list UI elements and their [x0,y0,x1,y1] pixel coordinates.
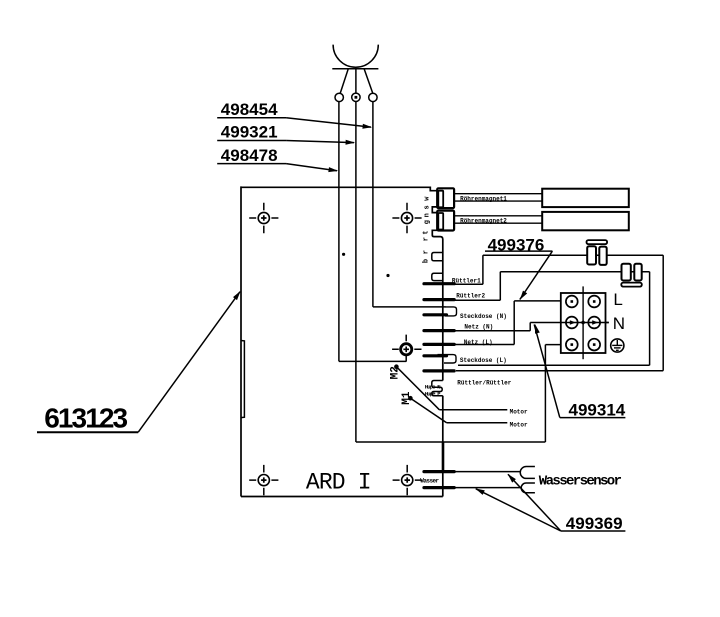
svg-text:M2: M2 [390,366,402,379]
svg-text:498478: 498478 [221,146,278,165]
svg-text:ARD I: ARD I [306,469,371,495]
svg-text:n: n [424,213,432,217]
svg-text:Rüttler1: Rüttler1 [452,277,481,284]
svg-text:499376: 499376 [488,236,545,255]
svg-text:Motor: Motor [510,408,528,415]
svg-text:Hupe N: Hupe N [425,383,441,390]
svg-text:t: t [423,230,431,234]
svg-text:Röhrenmagnet1: Röhrenmagnet1 [460,195,507,202]
svg-text:Wasser: Wasser [420,478,439,485]
svg-text:499369: 499369 [566,514,623,533]
svg-text:Steckdose (N): Steckdose (N) [460,313,507,320]
svg-text:M1: M1 [401,391,413,405]
svg-text:Netz (N): Netz (N) [464,324,493,331]
svg-text:Wassersensor: Wassersensor [539,473,622,489]
svg-text:Hupe P: Hupe P [425,391,442,398]
svg-text:g: g [424,220,432,224]
svg-text:r: r [423,237,431,241]
svg-text:Motor: Motor [510,422,528,429]
svg-text:b: b [423,259,431,263]
svg-text:s: s [424,205,432,209]
svg-text:r: r [423,250,431,254]
svg-text:Röhrenmagnet2: Röhrenmagnet2 [460,218,507,225]
svg-text:L: L [613,290,622,309]
svg-text:499314: 499314 [569,401,626,420]
svg-text:613123: 613123 [44,403,127,434]
svg-text:Netz (L): Netz (L) [464,339,493,346]
svg-text:498454: 498454 [221,100,278,119]
svg-text:Rüttler/Rüttler: Rüttler/Rüttler [457,379,511,386]
svg-text:Rüttler2: Rüttler2 [456,292,485,299]
svg-text:N: N [613,314,625,333]
svg-text:499321: 499321 [221,122,278,141]
svg-text:Steckdose (L): Steckdose (L) [460,357,507,364]
